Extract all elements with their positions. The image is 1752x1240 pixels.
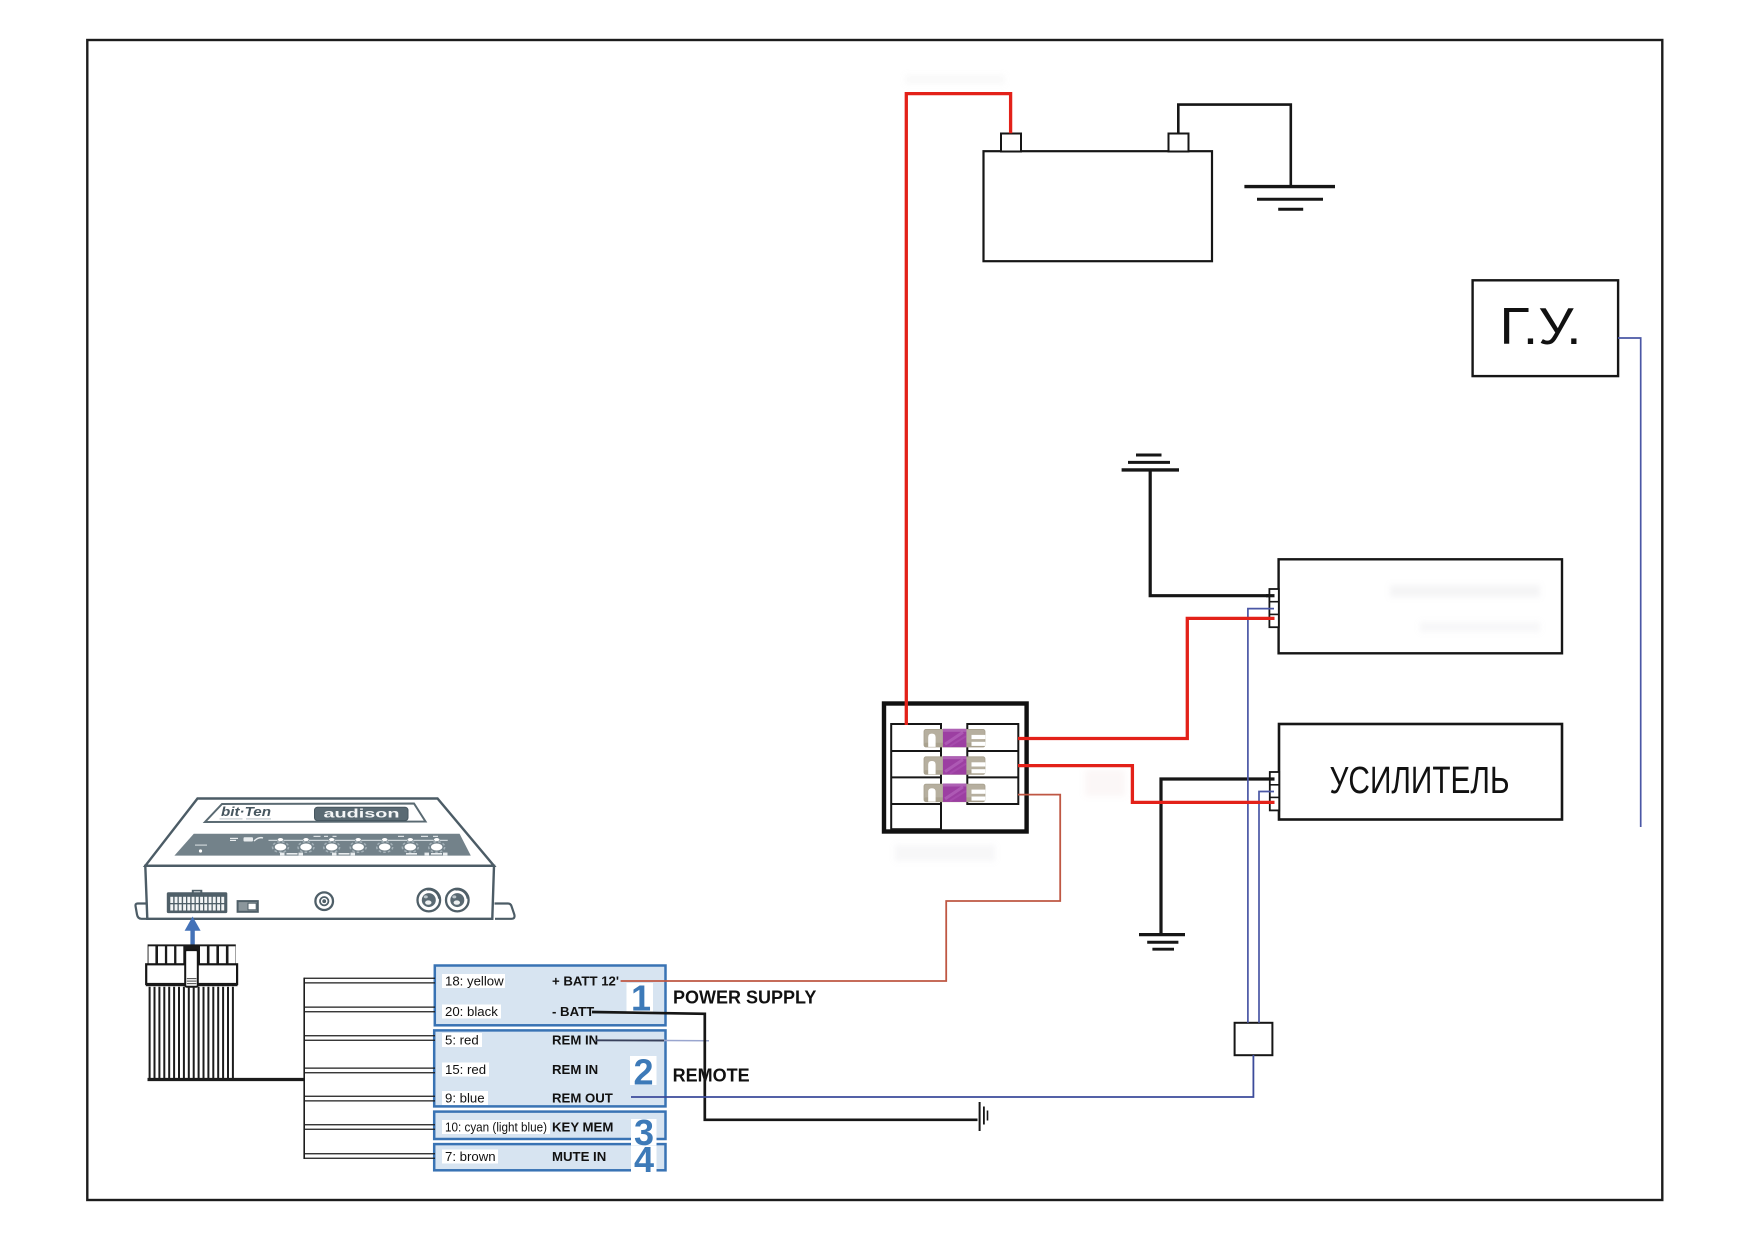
svg-text:20: black: 20: black xyxy=(445,1004,498,1019)
svg-text:7: brown: 7: brown xyxy=(445,1149,496,1164)
svg-text:REM IN: REM IN xyxy=(552,1062,598,1077)
svg-text:10: cyan (light blue): 10: cyan (light blue) xyxy=(445,1120,547,1135)
svg-text:audison: audison xyxy=(324,807,400,821)
svg-text:REMOTE: REMOTE xyxy=(673,1066,750,1086)
svg-text:2: 2 xyxy=(633,1052,653,1093)
svg-text:POWER SUPPLY: POWER SUPPLY xyxy=(673,988,816,1008)
svg-text:+ BATT 12': + BATT 12' xyxy=(552,974,619,989)
svg-text:KEY MEM: KEY MEM xyxy=(552,1120,613,1135)
svg-text:УСИЛИТЕЛЬ: УСИЛИТЕЛЬ xyxy=(1330,760,1510,802)
svg-text:REM IN: REM IN xyxy=(552,1033,598,1048)
svg-text:- BATT: - BATT xyxy=(552,1004,594,1019)
svg-text:5: red: 5: red xyxy=(445,1033,479,1048)
svg-text:15: red: 15: red xyxy=(445,1062,486,1077)
svg-text:18: yellow: 18: yellow xyxy=(445,974,504,989)
svg-text:bit·Ten: bit·Ten xyxy=(221,805,271,819)
svg-text:REM OUT: REM OUT xyxy=(552,1091,613,1106)
svg-text:9: blue: 9: blue xyxy=(445,1091,485,1106)
svg-text:Г.У.: Г.У. xyxy=(1500,298,1582,356)
svg-text:MUTE IN: MUTE IN xyxy=(552,1149,606,1164)
svg-text:4: 4 xyxy=(634,1139,654,1180)
